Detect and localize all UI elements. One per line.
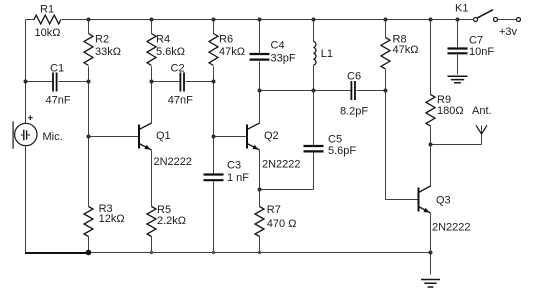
svg-text:R5: R5: [157, 204, 171, 216]
svg-text:R7: R7: [267, 204, 281, 216]
svg-text:10nF: 10nF: [469, 46, 494, 58]
svg-text:+3v: +3v: [499, 26, 518, 38]
svg-text:C6: C6: [347, 71, 361, 83]
svg-text:C7: C7: [469, 35, 483, 47]
svg-text:12kΩ: 12kΩ: [99, 213, 125, 225]
svg-text:C3: C3: [227, 160, 241, 172]
svg-text:C2: C2: [171, 62, 185, 74]
svg-text:Q1: Q1: [156, 130, 171, 142]
svg-text:C4: C4: [271, 40, 285, 52]
svg-text:C5: C5: [328, 134, 342, 146]
svg-text:R1: R1: [40, 3, 54, 15]
svg-text:8.2pF: 8.2pF: [340, 106, 368, 118]
svg-text:2N2222: 2N2222: [432, 222, 471, 234]
svg-text:L1: L1: [321, 48, 333, 60]
svg-text:Q3: Q3: [436, 195, 451, 207]
svg-text:470 Ω: 470 Ω: [267, 218, 297, 230]
svg-text:2.2kΩ: 2.2kΩ: [157, 215, 186, 227]
svg-text:2N2222: 2N2222: [154, 156, 193, 168]
svg-text:47kΩ: 47kΩ: [219, 46, 245, 58]
svg-text:5.6kΩ: 5.6kΩ: [156, 46, 185, 58]
svg-text:180Ω: 180Ω: [437, 105, 464, 117]
svg-text:47kΩ: 47kΩ: [393, 44, 419, 56]
svg-text:5.6pF: 5.6pF: [328, 145, 356, 157]
svg-text:47nF: 47nF: [168, 95, 193, 107]
svg-text:1 nF: 1 nF: [227, 172, 249, 184]
svg-text:2N2222: 2N2222: [262, 159, 301, 171]
svg-text:33pF: 33pF: [271, 52, 296, 64]
svg-text:K1: K1: [455, 3, 468, 15]
svg-text:47nF: 47nF: [46, 95, 71, 107]
svg-text:R6: R6: [219, 34, 233, 46]
svg-text:C1: C1: [50, 62, 64, 74]
svg-text:Ant.: Ant.: [472, 105, 492, 117]
svg-text:Mic.: Mic.: [43, 131, 63, 143]
svg-text:Q2: Q2: [264, 130, 279, 142]
svg-text:33kΩ: 33kΩ: [95, 46, 121, 58]
svg-text:R4: R4: [156, 34, 170, 46]
svg-text:R2: R2: [95, 34, 109, 46]
svg-text:10kΩ: 10kΩ: [35, 27, 61, 39]
